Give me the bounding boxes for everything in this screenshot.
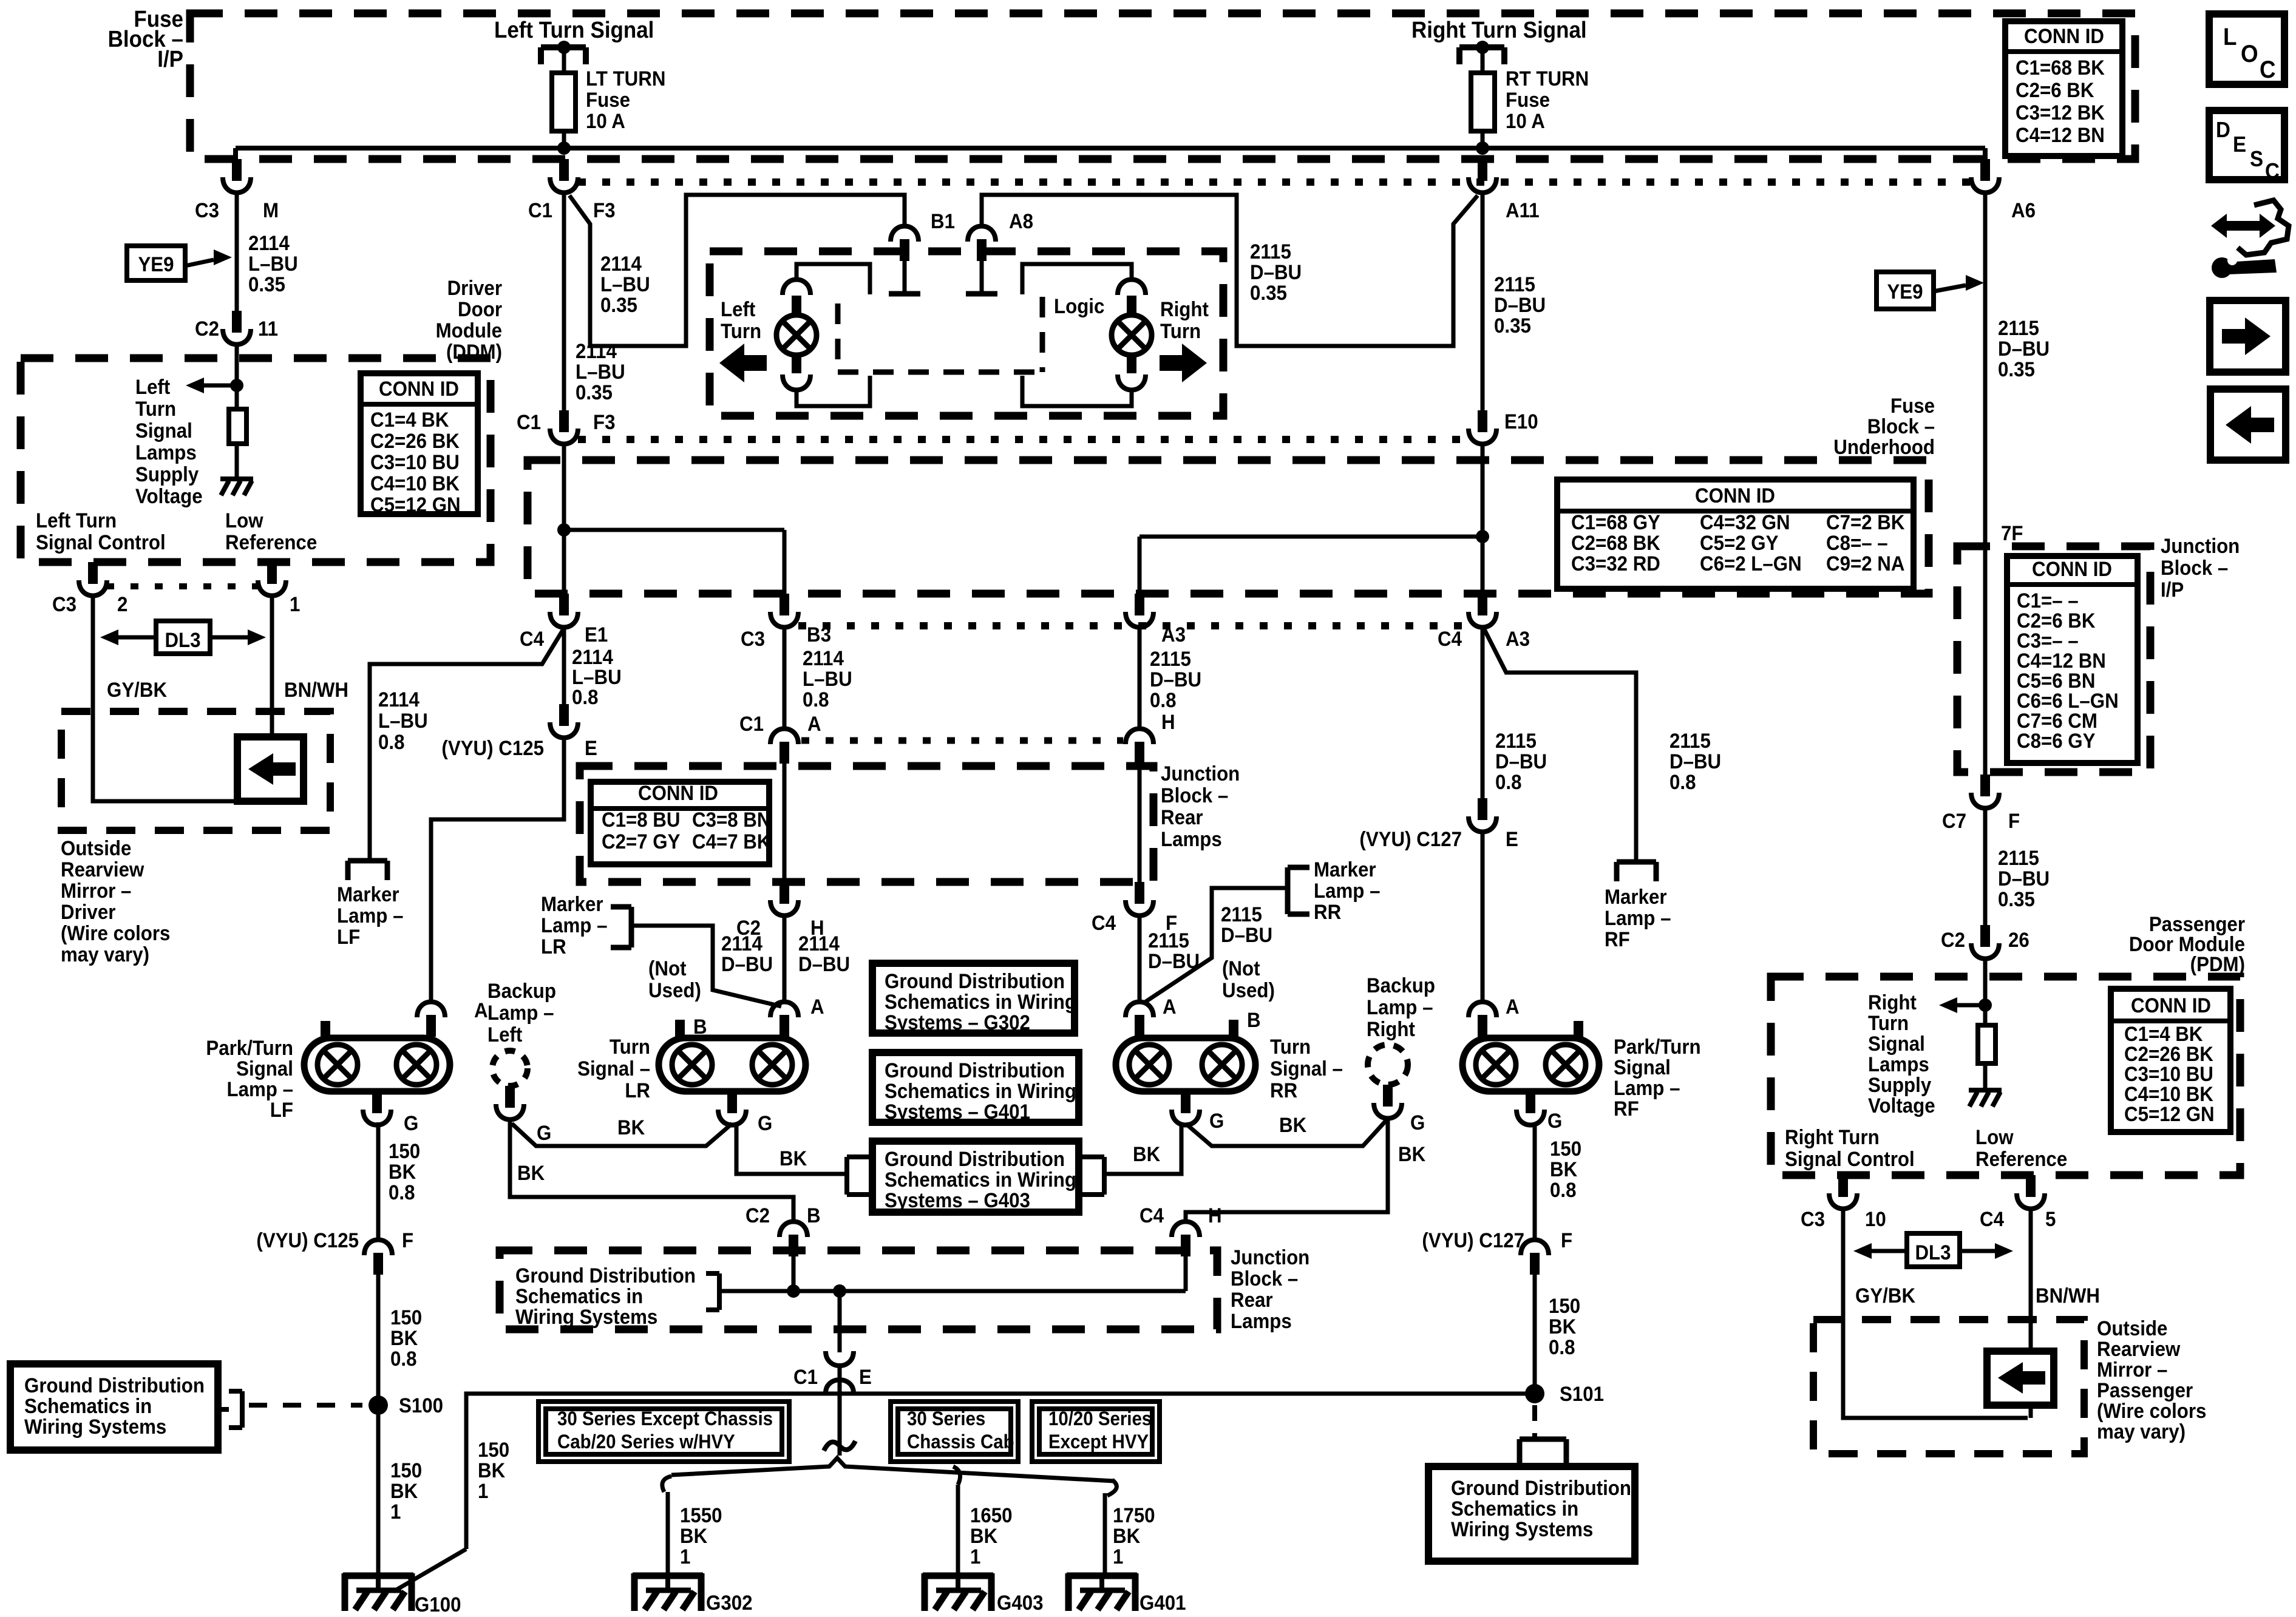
svg-text:1750: 1750 (1113, 1503, 1155, 1527)
svg-text:BK: BK (478, 1459, 506, 1482)
svg-text:26: 26 (2008, 928, 2029, 952)
svg-text:RF: RF (1614, 1097, 1639, 1120)
svg-text:(Not: (Not (1222, 957, 1260, 980)
svg-text:0.35: 0.35 (576, 381, 613, 404)
svg-text:2115: 2115 (1150, 647, 1191, 671)
svg-text:2114: 2114 (576, 339, 617, 363)
icon box arrow left (2210, 389, 2286, 460)
svg-text:Low: Low (225, 509, 263, 532)
svg-text:G: G (1410, 1111, 1425, 1134)
svg-text:YE9: YE9 (1887, 280, 1923, 303)
svg-text:C1: C1 (793, 1365, 818, 1389)
ground distribution box G302 (872, 963, 1076, 1034)
park/turn signal lamp LF (304, 1038, 450, 1091)
terminal bar B1 (903, 261, 907, 293)
connector pin 1 (DDM low ref) (258, 562, 286, 596)
svg-text:Schematics in Wiring: Schematics in Wiring (885, 1168, 1076, 1192)
svg-text:C4: C4 (1092, 911, 1116, 935)
svg-text:1: 1 (1113, 1545, 1123, 1568)
marker lamp RF bracket (1617, 862, 1656, 881)
svg-text:Systems – G302: Systems – G302 (885, 1011, 1030, 1034)
outside rearview mirror driver dashed box (61, 711, 330, 830)
svg-text:Backup: Backup (487, 979, 556, 1003)
CONN ID table junction block I/P (2007, 556, 2138, 763)
svg-text:RR: RR (1270, 1079, 1297, 1102)
wire BN/WH mirror driver (270, 597, 274, 737)
svg-text:Signal –: Signal – (1270, 1057, 1343, 1080)
svg-text:2114: 2114 (721, 932, 763, 955)
option arrow DL3 right (1853, 1243, 2013, 1259)
svg-text:C6=2 L–GN: C6=2 L–GN (1700, 552, 1802, 575)
svg-text:2115: 2115 (1998, 846, 2039, 870)
svg-text:D–BU: D–BU (1494, 293, 1546, 317)
wire through junction block right (1138, 764, 1142, 882)
svg-text:150: 150 (390, 1306, 422, 1329)
wire C4/F to turn RR terminal A (1138, 917, 1142, 1002)
spare stub RF (1574, 1021, 1583, 1039)
splice S101 (1525, 1384, 1544, 1403)
svg-text:(VYU) C127: (VYU) C127 (1359, 827, 1462, 851)
svg-text:C1: C1 (739, 712, 764, 736)
connector C127 F (1521, 1240, 1549, 1275)
mirror driver turn indicator box (237, 737, 304, 801)
junction dot PDM supply (1978, 998, 1992, 1012)
RPO box YE9 left (127, 246, 185, 280)
fuse F1 LT TURN holder bracket (541, 41, 586, 64)
connector C125 F (364, 1240, 392, 1275)
svg-text:Lamps: Lamps (1161, 827, 1222, 851)
svg-text:C4=12 BN: C4=12 BN (2016, 123, 2105, 147)
svg-text:Lamp –: Lamp – (227, 1077, 293, 1101)
svg-text:150: 150 (390, 1459, 422, 1482)
svg-text:BN/WH: BN/WH (2036, 1284, 2100, 1307)
icon box arrow right (2210, 300, 2286, 372)
svg-text:C1: C1 (528, 198, 552, 222)
fan hook right (1107, 1480, 1116, 1496)
svg-text:BK: BK (1113, 1524, 1141, 1548)
svg-text:30 Series Except Chassis: 30 Series Except Chassis (557, 1408, 773, 1429)
CONN ID table DDM (361, 373, 478, 514)
CONN ID table top right (2005, 21, 2122, 156)
svg-text:Door: Door (458, 297, 502, 321)
svg-text:E10: E10 (1504, 410, 1538, 433)
svg-text:DL3: DL3 (1915, 1241, 1951, 1264)
wire into DDM to supply-voltage node (235, 345, 239, 392)
svg-text:2115: 2115 (1250, 240, 1291, 263)
wire mirror box to GY/BK (2029, 1405, 2033, 1418)
svg-text:C3: C3 (741, 627, 765, 651)
svg-text:Lamp –: Lamp – (1605, 906, 1671, 930)
svg-text:L–BU: L–BU (576, 360, 625, 384)
svg-text:Left Turn Signal: Left Turn Signal (494, 17, 654, 43)
svg-text:I/P: I/P (157, 46, 183, 72)
wire GY/BK mirror passenger (1843, 1210, 2028, 1418)
svg-text:D: D (2216, 118, 2230, 143)
svg-text:A6: A6 (2011, 198, 2036, 222)
connector H top (1126, 729, 1153, 764)
icon vehicle with double arrow and wrench (2211, 200, 2289, 278)
svg-text:A: A (807, 712, 821, 736)
dotted connector face line (switch assembly bottom) (578, 436, 1469, 443)
wire C7/F to C2/26 (1983, 809, 1988, 925)
wire BN/WH mirror passenger (2029, 1210, 2033, 1351)
svg-text:Junction: Junction (2161, 534, 2240, 558)
svg-text:Signal: Signal (1614, 1056, 1671, 1079)
svg-text:C7=2 BK: C7=2 BK (1826, 510, 1905, 534)
wire C127 to park/turn RF terminal A (1481, 833, 1485, 1002)
right turn arrow icon (1160, 344, 1207, 382)
dotted connector face DDM bottom (106, 583, 259, 589)
wire marker LR to terminal A (631, 926, 781, 1006)
ground distribution box G403 (872, 1141, 1079, 1212)
svg-text:C2=68 BK: C2=68 BK (1571, 531, 1660, 555)
svg-text:Outside: Outside (2097, 1317, 2167, 1340)
svg-text:A11: A11 (1506, 198, 1540, 222)
left turn indicator lamp (783, 280, 810, 316)
turn signal indicator dashed box (710, 251, 1223, 416)
svg-text:Ground Distribution: Ground Distribution (1451, 1476, 1631, 1500)
wire A3 down to H (1138, 628, 1142, 728)
svg-text:C3: C3 (1801, 1207, 1825, 1231)
backup right G connector (1374, 1085, 1402, 1119)
option arrow DL3 left (100, 629, 266, 645)
svg-text:Marker: Marker (1605, 885, 1667, 909)
passenger door module dashed box (1771, 977, 2240, 1175)
svg-text:2115: 2115 (1998, 316, 2039, 340)
svg-text:Passenger: Passenger (2097, 1378, 2193, 1402)
svg-text:G401: G401 (1140, 1591, 1186, 1615)
svg-text:Left: Left (487, 1023, 522, 1046)
svg-text:BK: BK (390, 1326, 418, 1350)
turn signal lamp RR (1116, 1038, 1255, 1091)
connector B1 (891, 226, 919, 262)
svg-text:Driver: Driver (61, 900, 116, 924)
svg-text:0.35: 0.35 (1494, 314, 1531, 337)
junction dot at RT fuse (1476, 141, 1489, 155)
connector C7 F (1971, 775, 1999, 808)
svg-text:F: F (402, 1229, 413, 1252)
connector A11 (1469, 159, 1496, 193)
svg-text:Used): Used) (1222, 978, 1275, 1002)
svg-text:A: A (1163, 995, 1177, 1019)
svg-text:2114: 2114 (600, 252, 642, 276)
svg-text:1: 1 (680, 1545, 690, 1568)
wire C3/B3 down to C1/A (783, 628, 787, 728)
svg-text:Right: Right (1868, 991, 1917, 1014)
svg-text:G: G (404, 1111, 418, 1135)
svg-text:GY/BK: GY/BK (1855, 1284, 1915, 1307)
resistor in PDM (1978, 1025, 1995, 1088)
svg-text:DL3: DL3 (165, 628, 200, 652)
bracket near S100 (218, 1391, 242, 1428)
wire C1/F3 to second C1/F3 (562, 194, 566, 410)
svg-text:C2=7 GY: C2=7 GY (602, 830, 681, 853)
fan hook middle (953, 1466, 960, 1485)
svg-text:Signal Control: Signal Control (36, 531, 166, 554)
resistor in DDM (229, 392, 246, 477)
wire C127 F to S101 (1533, 1275, 1537, 1394)
svg-text:F3: F3 (593, 198, 616, 222)
wire C4/H into bus (1184, 1255, 1188, 1291)
wire marker LF branch (370, 628, 564, 859)
svg-text:D–BU: D–BU (1221, 923, 1272, 947)
wire F3 branch to B1 (569, 195, 905, 346)
svg-text:F3: F3 (593, 410, 616, 434)
svg-text:S101: S101 (1560, 1382, 1604, 1406)
svg-text:Rearview: Rearview (61, 858, 144, 881)
svg-text:Schematics in: Schematics in (515, 1284, 643, 1308)
wire left bus in underhood block (562, 442, 566, 594)
svg-text:0.8: 0.8 (1150, 688, 1176, 712)
svg-text:(Wire colors: (Wire colors (2097, 1399, 2206, 1423)
bracket G403 right (1079, 1157, 1104, 1195)
fuse F2 RT TURN holder bracket (1459, 41, 1504, 64)
option box 30 series chassis cab (891, 1402, 1018, 1462)
svg-text:10: 10 (1865, 1207, 1886, 1231)
svg-text:Schematics in Wiring: Schematics in Wiring (885, 990, 1076, 1014)
svg-text:Voltage: Voltage (1868, 1094, 1935, 1117)
svg-text:C1=68 GY: C1=68 GY (1571, 510, 1660, 534)
svg-text:G: G (1547, 1109, 1562, 1133)
terminal G connector RR (1172, 1091, 1200, 1125)
svg-text:D–BU: D–BU (1998, 867, 2050, 890)
svg-text:Rear: Rear (1231, 1288, 1273, 1312)
left turn arrow icon (719, 344, 767, 382)
wire C125 to park/turn LF terminal A (431, 739, 564, 1002)
connector C1 E inline (826, 1351, 854, 1393)
svg-text:C3=32 RD: C3=32 RD (1571, 552, 1660, 575)
svg-text:E: E (859, 1365, 872, 1389)
svg-text:(VYU) C127: (VYU) C127 (1422, 1229, 1524, 1252)
icon box LOC (2209, 14, 2284, 84)
svg-text:A: A (1506, 995, 1520, 1019)
RPO box DL3 left (156, 621, 210, 654)
svg-text:10 A: 10 A (586, 109, 625, 133)
svg-text:2114: 2114 (798, 932, 840, 955)
connector A3 left (1126, 594, 1153, 628)
svg-text:1: 1 (478, 1479, 488, 1503)
svg-text:Left Turn: Left Turn (36, 509, 117, 532)
connector C2 pin 11 (223, 311, 251, 345)
svg-text:C3: C3 (195, 198, 219, 222)
svg-text:BK: BK (617, 1116, 645, 1139)
svg-text:(DDM): (DDM) (446, 340, 502, 364)
svg-text:Wiring Systems: Wiring Systems (1451, 1517, 1593, 1541)
svg-text:0.8: 0.8 (1495, 770, 1521, 794)
svg-text:Logic: Logic (1054, 294, 1104, 318)
svg-text:Turn: Turn (1160, 319, 1201, 343)
svg-text:M: M (263, 198, 279, 222)
svg-text:Low: Low (1975, 1125, 2014, 1149)
right turn indicator lamp (1118, 280, 1146, 316)
wire C1/E down to split (838, 1366, 842, 1456)
svg-text:G: G (1209, 1109, 1224, 1133)
svg-text:C8=– –: C8=– – (1826, 531, 1888, 555)
svg-text:5: 5 (2045, 1207, 2056, 1231)
connector C2 pin B bottom junction (779, 1222, 807, 1257)
svg-text:BK: BK (1133, 1142, 1161, 1166)
svg-text:Turn: Turn (1270, 1035, 1311, 1059)
svg-text:L–BU: L–BU (803, 667, 852, 691)
dashed stub below S101 (1532, 1405, 1537, 1437)
terminal B stub turn LR (675, 1020, 685, 1039)
connector A6 (1971, 159, 1999, 193)
svg-text:Signal Control: Signal Control (1785, 1147, 1915, 1171)
svg-text:BK: BK (389, 1160, 416, 1184)
connector E10 (1469, 410, 1496, 444)
svg-text:Fuse: Fuse (1506, 88, 1550, 112)
svg-text:(Wire colors: (Wire colors (61, 921, 170, 945)
svg-text:C4=32 GN: C4=32 GN (1700, 510, 1790, 534)
svg-text:Signal: Signal (236, 1057, 293, 1080)
svg-text:0.8: 0.8 (1549, 1335, 1575, 1359)
svg-text:Signal –: Signal – (577, 1057, 650, 1080)
svg-text:0.8: 0.8 (1550, 1178, 1576, 1202)
svg-text:C3=8 BN: C3=8 BN (692, 808, 770, 832)
svg-text:F: F (1561, 1229, 1572, 1252)
svg-text:Reference: Reference (225, 531, 317, 554)
connector C2 pin 26 (1971, 925, 1999, 959)
svg-text:Voltage: Voltage (135, 484, 203, 508)
junction dot DDM supply (230, 379, 243, 392)
svg-text:BN/WH: BN/WH (284, 678, 348, 702)
svg-text:0.8: 0.8 (389, 1181, 415, 1204)
svg-text:Ground Distribution: Ground Distribution (885, 1147, 1065, 1171)
fuse block I/P dashed box (190, 13, 2135, 159)
left turn signal lamps supply voltage arrow (186, 378, 237, 393)
svg-text:C2: C2 (746, 1204, 770, 1227)
svg-text:Marker: Marker (1314, 858, 1376, 881)
svg-text:A: A (810, 995, 824, 1019)
svg-text:1650: 1650 (970, 1503, 1013, 1527)
svg-text:LF: LF (270, 1098, 293, 1122)
svg-text:0.35: 0.35 (1250, 281, 1287, 305)
wire drop to C3/M (233, 148, 238, 159)
left indicator wires (796, 264, 870, 294)
svg-text:L–BU: L–BU (378, 709, 428, 733)
svg-text:Systems – G401: Systems – G401 (885, 1100, 1030, 1124)
wire 150 BK 0.8 lamp LF to S100 (376, 1122, 381, 1239)
svg-text:LF: LF (337, 925, 360, 949)
svg-text:Signal: Signal (135, 419, 192, 442)
svg-text:Right: Right (1367, 1017, 1415, 1041)
junction dots on bus (787, 1284, 800, 1298)
CONN ID table underhood (1557, 480, 1914, 589)
inner dashed logic boundary (838, 297, 1042, 372)
bracket below S101 (1520, 1439, 1566, 1465)
wire bus exit down (838, 1291, 842, 1352)
ground G100 (343, 1573, 413, 1611)
park/turn signal lamp RF (1462, 1038, 1599, 1091)
svg-text:C8=6 GY: C8=6 GY (2017, 729, 2096, 753)
svg-text:D–BU: D–BU (798, 952, 850, 976)
svg-text:C4: C4 (1980, 1207, 2004, 1231)
svg-text:D–BU: D–BU (1250, 260, 1302, 284)
connector C4 pin F bottom (1126, 882, 1153, 916)
connector C1 F3 second (550, 410, 578, 444)
svg-text:C1: C1 (517, 410, 541, 434)
svg-text:BK: BK (1398, 1142, 1426, 1166)
svg-text:C3: C3 (52, 592, 76, 616)
svg-text:2115: 2115 (1148, 929, 1189, 952)
svg-text:2115: 2115 (1221, 903, 1262, 926)
svg-text:Lamps: Lamps (1231, 1309, 1292, 1333)
ground distribution box near S100 (10, 1364, 218, 1450)
svg-text:D–BU: D–BU (1495, 750, 1547, 773)
svg-text:Backup: Backup (1367, 974, 1435, 997)
svg-text:H: H (1161, 710, 1175, 734)
wire BK turn LR to G403 bracket (736, 1124, 847, 1174)
svg-text:CONN ID: CONN ID (2131, 994, 2211, 1017)
svg-text:Rearview: Rearview (2097, 1337, 2181, 1361)
svg-text:C4: C4 (1140, 1204, 1164, 1227)
svg-text:(PDM): (PDM) (2190, 952, 2245, 976)
svg-text:Fuse: Fuse (1890, 394, 1935, 418)
svg-text:CONN ID: CONN ID (1695, 484, 1775, 507)
svg-text:0.35: 0.35 (248, 273, 285, 296)
svg-text:Rear: Rear (1161, 805, 1203, 829)
svg-text:L–BU: L–BU (600, 273, 650, 296)
svg-text:may vary): may vary) (2097, 1420, 2186, 1443)
svg-text:C9=2 NA: C9=2 NA (1826, 552, 1904, 575)
connector C1 pin F3 (fuse block) (550, 159, 578, 193)
wire C125 F to S100 (376, 1275, 381, 1396)
svg-text:150: 150 (1549, 1294, 1580, 1318)
svg-text:C3=10 BU: C3=10 BU (370, 450, 460, 474)
svg-text:Signal: Signal (1868, 1032, 1925, 1056)
svg-text:C2: C2 (1941, 928, 1965, 952)
right turn supply arrow (1939, 997, 1985, 1013)
svg-text:1: 1 (290, 592, 300, 616)
bracket G403 left (847, 1157, 872, 1195)
wire fuse supply bus (236, 146, 1985, 151)
svg-text:CONN ID: CONN ID (2032, 557, 2112, 581)
wire into PDM (1983, 960, 1988, 1025)
svg-text:10/20 Series: 10/20 Series (1048, 1408, 1152, 1429)
dotted connector face line rear-harness row (798, 622, 1469, 629)
svg-text:C2: C2 (195, 317, 219, 341)
svg-text:Turn: Turn (1868, 1011, 1909, 1035)
svg-text:0.35: 0.35 (1998, 358, 2035, 381)
wire C2/B into bus (792, 1255, 796, 1291)
svg-text:Outside: Outside (61, 836, 131, 860)
svg-text:D–BU: D–BU (721, 952, 773, 976)
svg-text:G403: G403 (997, 1591, 1043, 1615)
terminal A connector park/turn RF (1469, 1002, 1496, 1037)
wire drop to G302 (666, 1492, 670, 1575)
terminal G connector LR (718, 1091, 746, 1125)
svg-text:A: A (474, 998, 488, 1022)
svg-text:LT TURN: LT TURN (586, 67, 665, 90)
svg-text:E1: E1 (585, 623, 608, 646)
svg-text:Junction: Junction (1231, 1246, 1309, 1269)
svg-text:A3: A3 (1506, 627, 1530, 651)
mirror passenger arrow (1998, 1362, 2045, 1394)
svg-text:Reference: Reference (1975, 1147, 2067, 1171)
svg-text:B: B (1247, 1008, 1261, 1032)
svg-text:Except HVY: Except HVY (1048, 1431, 1149, 1453)
CONN ID table junction rear lamps (591, 782, 769, 864)
svg-text:Systems – G403: Systems – G403 (885, 1188, 1030, 1212)
svg-text:Left: Left (135, 375, 170, 399)
junction dot at LT fuse (557, 141, 571, 155)
RPO box YE9 right (1877, 272, 1934, 309)
svg-text:LR: LR (541, 935, 566, 958)
svg-text:Mirror –: Mirror – (61, 879, 131, 903)
wire 2114 C4/E1 down to C125 (562, 628, 566, 704)
svg-text:Lamps: Lamps (1868, 1053, 1929, 1076)
connector C1 pin A (770, 729, 798, 764)
